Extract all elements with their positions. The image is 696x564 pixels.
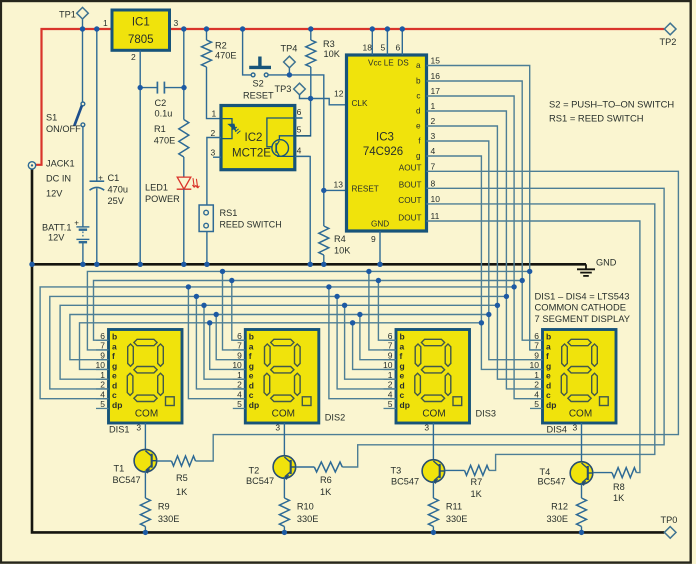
svg-text:T4: T4 [540,467,551,477]
svg-text:15: 15 [431,55,441,65]
connector JACK1 DC IN [28,159,74,199]
svg-text:dp: dp [400,400,410,410]
label DOUT IC3 [398,213,421,222]
pin 9 label IC3 [371,234,376,244]
junction dots upper ground rail [29,262,382,267]
label DIS3 [476,409,496,419]
wire segment a bus line with DIS1 nest [87,271,529,350]
wire segment e tap to DIS3 [345,305,396,379]
pin 3 label DIS4 [573,423,578,433]
svg-text:330E: 330E [297,514,318,524]
switch S2 RESET push-to-on [243,57,274,101]
segment label c IC3 [416,92,420,101]
wire segment f: IC3 stub, drop and DIS4 pin [427,141,543,360]
svg-text:9: 9 [534,350,539,360]
svg-text:4: 4 [297,146,302,156]
test point TP1 [59,7,88,19]
svg-text:470E: 470E [215,51,236,61]
svg-text:7805: 7805 [128,34,154,46]
svg-text:RESET: RESET [243,91,274,101]
segment label f IC3 [418,137,421,146]
segment label d IC3 [416,107,421,116]
svg-text:10: 10 [383,360,393,370]
wire S1 top [82,29,84,102]
svg-text:5: 5 [297,125,302,135]
transistor T3 BC547 [422,460,445,484]
wire segment a tap to DIS2 [223,271,246,350]
test point TP0 [661,515,678,538]
segment label b IC3 [416,77,421,86]
svg-text:9: 9 [371,234,376,244]
junction dots segment a [220,269,533,274]
label T3 [391,466,420,487]
wire IC2 pin 2 to RS1 [207,138,221,206]
svg-text:7: 7 [388,341,393,351]
junction dot T4 emitter rail [579,530,584,535]
svg-text:e: e [416,122,421,131]
svg-text:R6: R6 [320,475,332,485]
wire T3 collector from display pin 3 [432,423,434,461]
svg-text:9: 9 [100,350,105,360]
wire RESET node to R4 [323,190,325,226]
svg-text:f: f [546,351,549,361]
svg-text:BATT.1: BATT.1 [42,223,71,233]
svg-text:R8: R8 [613,482,625,492]
wire T1 base [157,460,172,462]
svg-text:+: + [98,173,103,182]
junction dot T2 emitter rail [282,530,287,535]
wire R3 to node TP3/CLK [310,67,312,99]
svg-text:S2 = PUSH–TO–ON SWITCH: S2 = PUSH–TO–ON SWITCH [549,98,674,109]
svg-text:2: 2 [131,52,136,62]
wire segment e bus line with DIS1 nest [60,305,497,379]
svg-text:b: b [546,332,551,342]
svg-text:9: 9 [237,350,242,360]
junction dots segment b [229,278,525,283]
wire C1 bottom [96,188,98,264]
wire segment b bus line with DIS1 nest [94,281,523,341]
svg-text:1: 1 [103,18,108,28]
svg-text:10: 10 [431,194,441,204]
svg-text:c: c [112,390,117,400]
svg-text:ON/OFF: ON/OFF [46,124,81,134]
junction dots C2 node [138,85,187,90]
wire R4 to ground rail [323,255,325,264]
svg-text:g: g [112,361,117,371]
resistor R7 1K [465,465,490,499]
svg-text:4: 4 [100,389,105,399]
label T2 [246,466,274,487]
wire segment a tap to DIS3 [369,271,396,350]
svg-text:1: 1 [534,370,539,380]
wire T4 collector from display pin 3 [581,423,583,463]
svg-text:7: 7 [100,341,105,351]
svg-text:c: c [546,390,551,400]
svg-text:b: b [112,332,117,342]
pin 4 label IC2 [297,146,302,156]
wire S2 to RESET node [268,75,324,190]
pin 2 label IC1 [131,52,136,62]
pin 6 label IC3 [396,43,401,53]
wire red rail to R2 [206,29,208,40]
svg-text:4: 4 [237,389,242,399]
segment label g IC3 [416,152,421,161]
svg-text:COM: COM [272,409,295,420]
pin 15 label IC3 right [431,55,441,65]
svg-text:dp: dp [112,400,122,410]
wire segment c tap to DIS3 [329,287,396,399]
label COUT IC3 [398,196,421,205]
junction dot TP3/CLK node [308,96,313,101]
junction dots +V rail [80,26,405,31]
wire T1 collector from display pin 3 [144,423,146,450]
label AOUT IC3 [399,164,422,173]
wire segment f tap to DIS3 [360,315,396,360]
svg-text:+: + [74,218,79,227]
svg-text:1K: 1K [320,487,332,497]
svg-text:a: a [112,341,117,351]
capacitor C2 0.1u [155,82,173,119]
svg-text:d: d [249,380,254,390]
svg-text:330E: 330E [158,514,179,524]
svg-text:BC547: BC547 [391,477,419,487]
svg-text:25V: 25V [108,196,125,206]
svg-text:13: 13 [334,179,344,189]
svg-text:d: d [400,380,405,390]
svg-text:a: a [400,341,405,351]
svg-text:R1: R1 [154,124,166,134]
wire TP3 to CLK node [300,95,311,99]
svg-text:6: 6 [100,331,105,341]
junction dot TP4/S2 node [287,72,292,77]
label DIS2 [325,412,345,422]
svg-text:470u: 470u [108,185,128,195]
wire R12 to bottom rail [581,527,583,533]
battery BATT.1 [42,218,89,242]
svg-text:DIS2: DIS2 [325,412,345,422]
svg-text:e: e [546,371,551,381]
wire segment b tap to DIS3 [378,281,396,341]
LED LED1 POWER [145,177,199,204]
pin 7 label IC3 right [431,161,436,171]
svg-text:POWER: POWER [145,194,180,204]
pin 1 label IC1 [103,18,108,28]
wire AOUT net: IC3 pin 7 to R5 [196,171,679,461]
svg-text:DIS1: DIS1 [109,425,129,435]
wire IC2 pin 4 to ground rail [295,156,310,264]
svg-text:2: 2 [100,380,105,390]
svg-text:c: c [400,390,405,400]
svg-text:TP2: TP2 [660,37,677,47]
note S2/RS1 [549,98,674,123]
wire IC3 pin 13 RESET stub [324,189,347,191]
svg-text:1K: 1K [471,489,483,499]
svg-text:BC547: BC547 [113,475,141,485]
svg-text:17: 17 [431,86,441,96]
svg-text:f: f [112,351,115,361]
wire segment g tap to DIS3 [353,323,396,370]
svg-text:1: 1 [100,370,105,380]
test point TP4 [281,44,298,68]
segment label e IC3 [416,122,421,131]
svg-text:S2: S2 [253,79,264,89]
junction dots segment e [201,303,500,308]
reed switch RS1 [199,205,282,232]
IC1 7805 regulator [112,10,170,50]
svg-text:4: 4 [534,389,539,399]
svg-text:BOUT: BOUT [399,181,422,190]
wire IC2 pin 3 stub [213,156,221,158]
svg-text:5: 5 [388,399,393,409]
display DIS3 LTS543 [383,330,469,424]
wire C2 left [140,87,157,89]
label BOUT IC3 [399,181,422,190]
svg-text:DC IN: DC IN [46,174,71,184]
svg-text:5: 5 [381,43,386,53]
wire segment g bus line with DIS1 nest [80,323,482,370]
wire battery to ground rail [82,242,84,264]
svg-text:470E: 470E [154,136,175,146]
svg-text:IC2: IC2 [245,132,263,144]
svg-text:g: g [400,361,405,371]
svg-text:6: 6 [237,331,242,341]
svg-text:a: a [249,341,254,351]
svg-text:REED SWITCH: REED SWITCH [220,219,282,229]
svg-text:7: 7 [534,341,539,351]
svg-text:5: 5 [237,399,242,409]
svg-text:3: 3 [424,423,429,433]
svg-text:dp: dp [249,400,259,410]
pin 10 label IC3 right [431,194,441,204]
wire IC1 pin 2 to ground rail [139,50,141,264]
svg-text:6: 6 [396,43,401,53]
svg-text:IC3: IC3 [376,132,394,144]
svg-text:12V: 12V [48,233,65,243]
svg-text:COM: COM [422,409,445,420]
svg-text:TP4: TP4 [281,44,298,54]
svg-text:5: 5 [100,399,105,409]
wire R10 to bottom rail [283,527,285,533]
svg-text:1K: 1K [176,487,188,497]
pin 3 label DIS2 [275,423,280,433]
svg-text:3: 3 [174,18,179,28]
svg-text:2: 2 [388,380,393,390]
svg-text:g: g [546,361,551,371]
svg-text:RESET: RESET [352,185,379,194]
svg-text:3: 3 [211,148,216,158]
wire segment b: IC3 stub, drop and DIS4 pin [427,81,543,340]
svg-text:d: d [416,107,421,116]
resistor R5 1K [172,456,196,497]
wire segment c bus line with DIS1 nest [40,287,514,399]
svg-text:S1: S1 [46,113,57,123]
wire R9 to bottom rail [144,527,146,533]
svg-text:Vcc: Vcc [368,58,382,67]
svg-text:DIS1 – DIS4 = LTS543: DIS1 – DIS4 = LTS543 [535,290,630,301]
pin 1 label IC3 right [431,101,436,111]
svg-text:e: e [112,371,117,381]
junction dot T3 emitter rail [431,530,436,535]
wire red rail to R1 [183,29,185,120]
label DIS1 [109,425,129,435]
svg-text:b: b [400,332,405,342]
resistor R11 330E [428,498,467,527]
svg-text:dp: dp [546,400,556,410]
switch S1 [46,102,85,134]
svg-text:1: 1 [388,370,393,380]
pin 8 label IC3 right [431,178,436,188]
resistor R8 1K [612,468,636,503]
svg-text:R5: R5 [176,473,188,483]
test point TP3 [275,83,306,95]
svg-text:COM: COM [135,409,158,420]
label T1 [113,464,141,486]
wire +12V/+5V positive rail (red) [35,29,664,165]
svg-text:BC547: BC547 [538,477,566,487]
junction dot RESET node [321,188,326,193]
svg-text:CLK: CLK [352,99,368,108]
svg-text:12V: 12V [46,188,63,198]
svg-text:0.1u: 0.1u [155,108,173,118]
wire CLK node to IC3 pin 12 [311,99,347,105]
svg-text:6: 6 [297,107,302,117]
svg-text:R4: R4 [334,234,346,244]
transistor T4 BC547 [570,462,593,486]
wire S1 bottom to battery [82,127,84,227]
resistor R3 10K [306,39,341,67]
svg-text:DOUT: DOUT [398,213,421,222]
wire segment c: IC3 stub, drop and DIS4 pin [427,96,543,399]
svg-text:R11: R11 [446,502,462,512]
svg-text:2: 2 [431,116,436,126]
optocoupler IC2 MCT2E [221,106,311,170]
resistor R6 1K [314,462,342,497]
resistor R4 10K [319,226,351,256]
wire T3 base [445,469,465,471]
pin 18 label IC3 [363,43,373,53]
svg-text:g: g [416,152,421,161]
svg-text:3: 3 [431,131,436,141]
svg-text:1: 1 [431,101,436,111]
svg-text:a: a [416,61,421,70]
junction dots segment d [194,294,509,299]
wire segment c tap to DIS2 [188,287,245,399]
pin 3 label DIS3 [424,423,429,433]
junction dots segment g [207,320,484,325]
svg-text:10K: 10K [334,246,351,256]
svg-text:5: 5 [534,399,539,409]
svg-text:C1: C1 [108,173,120,183]
svg-text:a: a [546,341,551,351]
svg-text:JACK1: JACK1 [46,159,75,169]
svg-text:3: 3 [573,423,578,433]
svg-text:8: 8 [431,178,436,188]
svg-text:1: 1 [212,109,217,119]
svg-text:330E: 330E [547,514,568,524]
svg-text:10K: 10K [324,49,341,59]
wire segment f bus line with DIS1 nest [70,315,489,360]
svg-text:R7: R7 [471,477,483,487]
svg-text:R12: R12 [551,502,568,512]
svg-text:b: b [416,77,421,86]
pin 5 label IC3 [381,43,386,53]
wire IC3 top pin 18 to +5V rail [371,29,373,55]
svg-text:RS1: RS1 [220,208,238,218]
junction dot T1 emitter rail [143,530,148,535]
pin 12 label IC3 [334,89,344,99]
svg-text:16: 16 [431,71,441,81]
svg-text:7: 7 [431,161,436,171]
junction dots segment c [186,284,517,289]
svg-text:T3: T3 [391,466,402,476]
label T4 [538,467,566,487]
svg-text:COMMON CATHODE: COMMON CATHODE [535,302,627,313]
wire R1 to LED1 [183,157,185,177]
wire segment g: IC3 stub, drop and DIS4 pin [427,156,543,369]
wire LED1 to ground rail [183,189,185,264]
resistor R10 330E [279,498,318,527]
wire ground: upper ground rail [32,263,586,266]
wire TP1 stem [82,19,84,29]
display DIS4 LTS543 [530,330,616,424]
svg-text:R9: R9 [158,502,170,512]
segment label a IC3 [416,61,421,70]
pin 3 label IC3 right [431,131,436,141]
svg-text:c: c [416,92,420,101]
svg-text:T2: T2 [249,466,260,476]
svg-text:d: d [546,380,551,390]
wire T2 base [296,466,315,468]
svg-text:6: 6 [388,331,393,341]
svg-text:g: g [249,361,254,371]
wire ground: jack down left side to bottom rail [32,169,664,533]
svg-text:DS: DS [397,58,409,67]
wire T2 emitter to R10 [283,477,285,498]
svg-text:TP3: TP3 [275,84,292,94]
pin 1 label IC2 [212,109,217,119]
pin 3 label IC1 [174,18,179,28]
svg-text:IC1: IC1 [132,17,150,29]
wire T4 emitter to R12 [581,483,583,498]
svg-text:7 SEGMENT DISPLAY: 7 SEGMENT DISPLAY [535,313,631,324]
svg-text:1: 1 [237,370,242,380]
svg-text:74C926: 74C926 [363,146,403,158]
wire segment g tap to DIS2 [210,323,246,370]
wire segment d: IC3 stub, drop and DIS4 pin [427,111,543,389]
wire R2 to IC2 pin 1 [207,67,222,119]
wire IC2 pin 6 stub [295,117,303,119]
svg-text:f: f [249,351,252,361]
svg-text:DIS4: DIS4 [547,425,567,435]
svg-text:COUT: COUT [398,196,421,205]
svg-text:9: 9 [388,350,393,360]
capacitor C1 470u [90,173,128,206]
wire T4 base [593,472,612,474]
svg-text:330E: 330E [446,514,467,524]
IC3 74C926 counter [347,55,427,231]
svg-text:18: 18 [363,43,373,53]
pin 2 label IC3 right [431,116,436,126]
svg-text:d: d [112,380,117,390]
svg-text:e: e [249,371,254,381]
pin 13 label IC3 [334,179,344,189]
resistor R2 470E [202,40,237,67]
svg-text:GND: GND [371,220,389,229]
svg-text:2: 2 [211,128,216,138]
svg-text:4: 4 [431,146,436,156]
svg-text:COM: COM [569,409,592,420]
pin 16 label IC3 right [431,71,441,81]
